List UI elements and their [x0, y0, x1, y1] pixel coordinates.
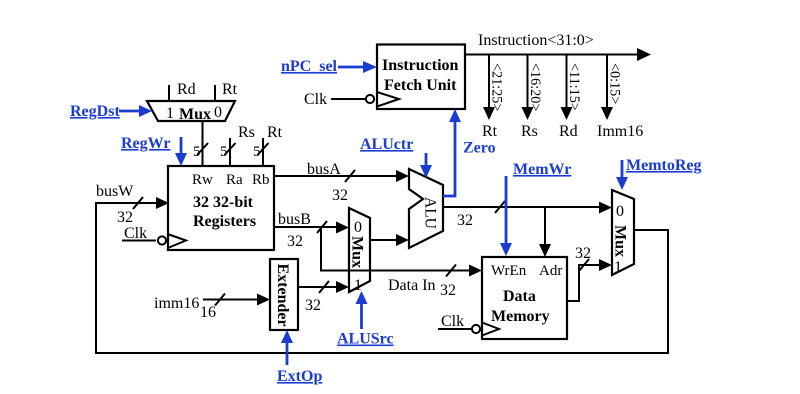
svg-text:Rt: Rt — [222, 81, 238, 98]
svg-text:Mux: Mux — [349, 236, 366, 268]
svg-text:ExtOp: ExtOp — [277, 368, 322, 385]
svg-text:ALUSrc: ALUSrc — [337, 331, 394, 348]
svg-text:Clk: Clk — [441, 313, 464, 330]
svg-text:Rs: Rs — [238, 124, 255, 141]
svg-text:Rt: Rt — [482, 123, 498, 140]
svg-text:ALUctr: ALUctr — [360, 136, 413, 153]
svg-text:5: 5 — [253, 144, 261, 160]
svg-text:Rt: Rt — [267, 124, 283, 141]
svg-text:32: 32 — [457, 212, 473, 229]
svg-text:Clk: Clk — [124, 225, 147, 242]
svg-text:imm16: imm16 — [154, 295, 199, 312]
svg-text:Instruction<31:0>: Instruction<31:0> — [478, 32, 594, 49]
svg-text:Data In: Data In — [388, 277, 436, 294]
svg-text:1: 1 — [354, 277, 362, 294]
svg-text:nPC_sel: nPC_sel — [281, 58, 338, 75]
svg-text:Mux: Mux — [179, 106, 211, 123]
svg-text:Data: Data — [503, 288, 536, 305]
svg-text:ALU: ALU — [422, 197, 439, 229]
svg-text:Rw: Rw — [192, 172, 213, 188]
svg-text:32: 32 — [287, 233, 303, 250]
svg-text:Mux: Mux — [612, 225, 629, 257]
svg-text:32: 32 — [440, 282, 456, 299]
svg-text:32: 32 — [332, 187, 348, 204]
svg-text:Memory: Memory — [491, 308, 550, 325]
svg-text:<21:25>: <21:25> — [489, 63, 505, 111]
svg-text:Ra: Ra — [226, 172, 243, 188]
svg-text:Fetch Unit: Fetch Unit — [384, 77, 457, 94]
svg-text:<0:15>: <0:15> — [607, 63, 623, 104]
svg-text:Rs: Rs — [521, 123, 538, 140]
svg-text:Rd: Rd — [559, 123, 578, 140]
svg-text:32: 32 — [575, 245, 591, 262]
svg-text:Registers: Registers — [193, 213, 256, 230]
svg-text:busW: busW — [96, 183, 134, 200]
svg-text:Rb: Rb — [252, 172, 270, 188]
svg-text:<16:20>: <16:20> — [527, 63, 543, 111]
svg-text:1: 1 — [614, 259, 622, 276]
svg-text:RegWr: RegWr — [121, 135, 170, 152]
svg-text:<11:15>: <11:15> — [566, 63, 582, 111]
svg-text:WrEn: WrEn — [491, 263, 527, 279]
svg-text:32: 32 — [305, 297, 321, 314]
svg-text:busA: busA — [307, 161, 341, 178]
svg-text:RegDst: RegDst — [70, 103, 120, 120]
svg-text:32 32-bit: 32 32-bit — [193, 194, 254, 211]
svg-text:1: 1 — [166, 105, 174, 122]
svg-text:MemtoReg: MemtoReg — [626, 157, 702, 174]
svg-text:32: 32 — [117, 209, 133, 226]
svg-text:MemWr: MemWr — [513, 161, 571, 178]
svg-text:Imm16: Imm16 — [597, 123, 643, 140]
svg-text:Adr: Adr — [539, 263, 562, 279]
svg-text:Instruction: Instruction — [382, 57, 459, 74]
svg-text:16: 16 — [200, 304, 216, 321]
svg-text:0: 0 — [616, 203, 624, 220]
svg-text:Rd: Rd — [177, 81, 196, 98]
svg-text:5: 5 — [220, 144, 228, 160]
svg-text:0: 0 — [354, 219, 362, 236]
svg-text:busB: busB — [278, 211, 311, 228]
svg-text:Clk: Clk — [304, 91, 327, 108]
svg-text:Extender: Extender — [274, 264, 291, 327]
svg-text:Zero: Zero — [463, 140, 496, 157]
svg-text:5: 5 — [193, 144, 201, 160]
svg-text:0: 0 — [214, 104, 222, 121]
